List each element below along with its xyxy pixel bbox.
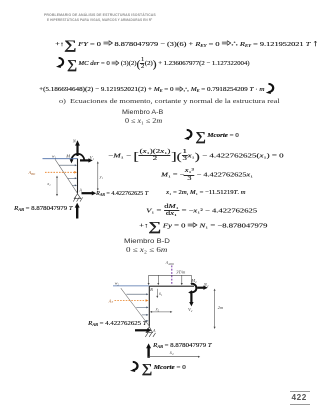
equation line 3: ME result (39, 82, 278, 94)
member load arrow 2 (diagram 2) (136, 306, 148, 308)
svg-text:w₁: w₁ (52, 154, 57, 159)
svg-text:AT: AT (108, 298, 114, 304)
x2 dimension arrow (148, 356, 200, 358)
R_AB vertical reaction arrow (diagram 2) (146, 343, 151, 357)
member A-B below joint (diagram 2) (148, 286, 150, 326)
svg-text:2m: 2m (218, 305, 223, 310)
svg-text:M₂: M₂ (190, 278, 197, 283)
pin support at A (diagram 2) (146, 327, 153, 333)
title Miembro A-B (122, 109, 163, 116)
svg-text:V₁: V₁ (90, 155, 95, 160)
w2 load top line (113, 285, 149, 287)
distributed load arrow 3 (72, 184, 77, 186)
distributed load arrow 2 (68, 177, 77, 179)
distributed load arrow 1 (59, 164, 77, 166)
member load arrow 3 (diagram 2) (142, 314, 149, 316)
R_AB = 8.878047979 T (diagram 1 bottom label) (14, 207, 73, 213)
V1 shear arrow (80, 158, 93, 162)
svg-text:x̄₂: x̄₂ (155, 306, 160, 311)
domain 0 <= x2 <= 6m (126, 246, 167, 254)
domain 0 <= x1 <= 2m (125, 117, 162, 125)
y1 dimension line (right of member) (97, 161, 99, 190)
svg-text:y₁: y₁ (99, 174, 104, 179)
header line 2 (47, 17, 152, 22)
x1 inner dimension arrow (56, 176, 58, 197)
sum Mcorte = 0 (second) (130, 360, 186, 372)
svg-text:V₂: V₂ (188, 307, 193, 312)
A_ABD centroid dashed line (purple) (171, 266, 173, 285)
R_AB = 4.422762625 T (diagram 2 left label) (88, 322, 147, 328)
beam load rectangle top line (149, 274, 192, 276)
equation M1 = -x1^3/3 ... (161, 168, 253, 181)
svg-text:ABD: ABD (28, 170, 36, 176)
equation line 2: sum MC der (56, 56, 249, 70)
svg-text:x₁: x₁ (46, 181, 51, 186)
svg-text:AABD: AABD (165, 260, 175, 266)
beam load arrow 1 (157, 275, 159, 285)
2m dimension line (214, 289, 216, 329)
w1 load top line (43, 158, 78, 160)
title Miembro B-D (124, 238, 170, 245)
pin support at A (diagram 1) (74, 194, 81, 199)
xbar1 tick dimension (156, 289, 158, 298)
svg-text:B: B (150, 287, 153, 292)
load triangle hypotenuse (diagram 2) (121, 288, 150, 326)
sum Mcorte = 0 (first) (184, 128, 239, 140)
A_BD resultant arrow (orange dashed) (45, 171, 77, 174)
beam load left edge arrow (148, 275, 150, 285)
N1 axial force arrow (75, 140, 80, 156)
R_AB = 4.422762625 T (diagram 1 right label) (96, 192, 148, 198)
V2 shear arrow (189, 294, 193, 307)
N2 axial arrow (197, 286, 208, 290)
R_AB vertical reaction arrow (diagram 1) (75, 203, 80, 219)
M2 moment arc (188, 284, 196, 295)
support hatching (diagram 1) (73, 197, 82, 201)
load triangle hypotenuse (diagram 1) (55, 159, 78, 194)
member A-B (diagram 1) (77, 159, 79, 194)
beam B-D (diagram 2) (149, 285, 194, 287)
beam load arrow 2 (181, 275, 183, 285)
xbar2 dimension arrow (150, 311, 173, 313)
R_AB horizontal reaction arrow (diagram 2) (135, 328, 152, 332)
item o) heading (59, 98, 280, 105)
svg-text:M₁: M₁ (65, 153, 72, 158)
equation V1 = dM1/dx1 (146, 204, 257, 217)
member load arrow 1 (diagram 2) (126, 293, 148, 295)
page number rules and 422 (290, 391, 310, 392)
svg-text:x₂: x₂ (169, 351, 174, 356)
equation x1 = 2m, M1 = -11.51219 (166, 190, 245, 196)
svg-text:A: A (78, 188, 82, 193)
header line 1 (44, 12, 156, 17)
M1 moment arc (70, 154, 85, 164)
member load arrow 4 (diagram 2) (145, 320, 148, 322)
svg-text:N₂: N₂ (203, 282, 209, 287)
svg-text:N₁: N₁ (72, 139, 78, 144)
equation -M1 line (108, 149, 284, 162)
support hatching (diagram 2) (145, 333, 155, 337)
svg-text:x̄₁: x̄₁ (158, 291, 163, 296)
svg-text:3T/m: 3T/m (176, 270, 185, 275)
R_AB = 8.878047979 T (diagram 2 bottom label) (153, 344, 212, 350)
beam load arrow 3 (right edge) (190, 275, 192, 285)
equation sum Fy N1 (139, 222, 267, 230)
R_AB horizontal reaction arrow (diagram 1) (82, 191, 97, 195)
A_T resultant arrow (orange dashed, diagram 2) (115, 299, 149, 302)
svg-text:w₂: w₂ (115, 280, 120, 285)
equation line 1: sum FY (55, 39, 318, 48)
